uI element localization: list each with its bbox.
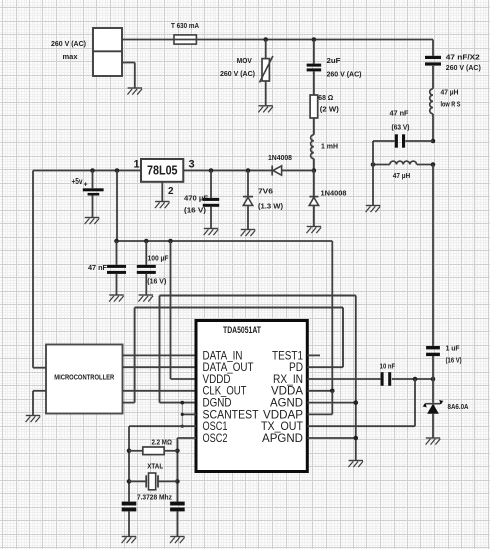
svg-text:8A6.0A: 8A6.0A <box>448 402 469 411</box>
node VDDA junction <box>330 389 335 394</box>
inductor 47 uH low RS <box>430 66 461 114</box>
node SCANTEST <box>181 413 184 416</box>
svg-text:10 nF: 10 nF <box>380 362 396 371</box>
wire OSC2 pin <box>177 438 196 502</box>
node RX net TX tap <box>413 377 418 382</box>
diode D1 1N4008 horizontal <box>268 153 314 175</box>
wire VDD branch down <box>116 171 118 242</box>
svg-text:(2 W): (2 W) <box>320 104 340 113</box>
pin label DGND <box>203 396 232 410</box>
pin label OSC2 <box>203 431 228 445</box>
wire SCANTEST tie <box>181 403 183 427</box>
svg-text:(1.3 W): (1.3 W) <box>258 202 284 211</box>
node AGND junction <box>354 400 359 405</box>
capacitor 1 uF 16V <box>426 343 462 364</box>
pin label OSC1 <box>203 419 228 433</box>
ground xtal right <box>170 537 185 544</box>
svg-text:max: max <box>63 52 79 61</box>
wire VDDAP pin <box>307 413 332 415</box>
pin label APGND <box>262 431 303 445</box>
svg-text:100 µF: 100 µF <box>148 254 169 263</box>
svg-text:47 µH: 47 µH <box>441 88 459 97</box>
diode D2 1N4008 vertical <box>309 189 346 206</box>
svg-text:T 630 mA: T 630 mA <box>171 21 199 30</box>
wire 1mH to node <box>313 159 315 171</box>
capacitor 2uF 260V <box>307 56 362 79</box>
pin label DATA_OUT <box>203 360 255 374</box>
svg-text:(16 V): (16 V) <box>184 205 207 214</box>
wire connector bottom pin <box>122 63 135 89</box>
pin label VDDD <box>203 372 231 386</box>
wire connector top pin to fuse <box>122 39 174 41</box>
svg-text:APGND: APGND <box>262 431 303 445</box>
wire VDDA pin <box>307 390 332 392</box>
ground 470uF <box>204 229 219 236</box>
svg-text:OSC2: OSC2 <box>203 431 228 445</box>
node 100uF tap <box>144 239 149 244</box>
crystal XTAL 7.3728 Mhz <box>129 462 177 502</box>
capacitor xtal left <box>122 502 137 537</box>
wire PD pin <box>307 366 343 368</box>
wire AGND pin <box>307 402 356 404</box>
svg-text:+5v: +5v <box>72 177 83 186</box>
svg-text:260 V (AC): 260 V (AC) <box>446 63 481 72</box>
wire TEST1 stub <box>307 354 320 356</box>
capacitor 470 uF 16V <box>184 171 219 229</box>
wire right rail to 1uF <box>432 165 434 347</box>
node mains junction at 2uF <box>312 37 317 42</box>
wire PD loop <box>135 308 343 403</box>
wire DGND-AGND loop <box>160 296 356 403</box>
wire 2uF to 68 ohm <box>313 71 315 95</box>
wire 78L05 pin3 rail <box>183 170 272 172</box>
capacitor C +5v electrolytic <box>83 171 104 218</box>
fuse F1 T 630 mA <box>171 21 199 44</box>
ground 47nF <box>109 295 124 302</box>
svg-text:(16 V): (16 V) <box>446 355 462 364</box>
capacitor 47 nF decoupling <box>88 241 126 295</box>
svg-text:47 nF/X2: 47 nF/X2 <box>446 53 480 62</box>
wire 1N4008 to ground <box>313 205 315 226</box>
node 470uF tap <box>209 168 214 173</box>
wire left supply vertical <box>32 171 34 368</box>
capacitor 10 nF <box>380 362 433 386</box>
wire OSC1 pin <box>129 426 196 501</box>
svg-text:47 nF: 47 nF <box>88 263 107 272</box>
wire VDDD vertical <box>171 241 197 379</box>
ground xtal left <box>122 537 137 544</box>
node OSC1 tie <box>181 425 184 428</box>
svg-text:1: 1 <box>133 158 139 170</box>
wire MOV branch <box>265 40 267 59</box>
node filter left top <box>371 162 376 167</box>
svg-text:2: 2 <box>168 186 174 197</box>
svg-text:1 mH: 1 mH <box>321 142 338 151</box>
node DGND scantest <box>180 401 184 405</box>
ground analog <box>348 461 363 468</box>
label 260 V (AC) max <box>51 39 86 61</box>
TVS diode 8A6.0A <box>422 400 469 413</box>
wire coil to node <box>432 114 434 141</box>
AC mains connector J1 260V <box>93 28 122 76</box>
node osc1 res <box>127 449 132 454</box>
node 7V6 tap <box>246 168 251 173</box>
wire VDDA-VDDAP tie <box>331 391 333 415</box>
wire TVS to ground <box>432 413 434 438</box>
wire MCU data_in <box>123 354 197 356</box>
wire MCU gnd pin <box>33 391 46 416</box>
svg-text:47 µH: 47 µH <box>393 171 411 180</box>
wire MCU clk_out <box>123 390 197 392</box>
capacitor xtal right <box>170 502 185 537</box>
capacitor 47 nF/X2 260V <box>425 40 481 73</box>
IC U1 TDA5051AT <box>196 321 307 472</box>
wire MCU pd pin <box>123 402 135 404</box>
node filter right bottom <box>431 162 436 167</box>
inductor 1 mH <box>311 135 338 159</box>
pin 2 label <box>168 186 174 197</box>
svg-text:TDA5051AT: TDA5051AT <box>223 325 261 335</box>
svg-text:470 µF: 470 µF <box>184 194 208 203</box>
microcontroller U3 <box>46 345 123 414</box>
pin label DATA_IN <box>203 348 243 362</box>
svg-text:XTAL: XTAL <box>147 462 163 471</box>
ground 78L05 <box>155 202 170 209</box>
pin 3 label <box>188 158 194 170</box>
wire filter left leg <box>372 141 374 206</box>
svg-text:2.2 MΩ: 2.2 MΩ <box>151 438 172 447</box>
node coupling junction <box>312 168 317 173</box>
pin label PD <box>289 360 303 374</box>
node osc1 xtal <box>127 479 132 484</box>
node +5v tap <box>90 168 95 173</box>
node VDDD tap <box>168 239 173 244</box>
node osc2 res <box>175 449 180 454</box>
resistor 68 Ohm 2W <box>310 93 339 118</box>
pin 1 label <box>133 158 139 170</box>
pin label VDDA <box>271 384 303 398</box>
node 47nF tap <box>114 239 119 244</box>
wire MCU data_out <box>123 366 197 368</box>
svg-text:1N4008: 1N4008 <box>268 153 292 162</box>
capacitor 47 nF (63 V) <box>373 108 433 147</box>
node APGND junction <box>354 436 359 441</box>
resistor 2.2 MOhm <box>129 438 177 455</box>
pin label CLK_OUT <box>203 384 248 398</box>
svg-text:7V6: 7V6 <box>258 187 273 196</box>
wire VDDA vertical from rail2 <box>331 241 333 391</box>
inductor 47 uH horizontal <box>373 161 433 180</box>
pin label TEST1 <box>272 348 303 362</box>
wire 2uF top <box>313 40 315 64</box>
node filter right top <box>431 139 436 144</box>
pin label AGND <box>270 396 303 410</box>
node mains junction at MOV <box>263 37 268 42</box>
svg-text:+: + <box>84 182 88 189</box>
wire node down to 1N4008 <box>313 171 315 197</box>
node VDD branch <box>115 168 120 173</box>
capacitor 100 uF 16V <box>137 241 169 295</box>
label +5v <box>72 177 88 189</box>
ground connector neutral <box>127 88 142 95</box>
svg-text:3: 3 <box>188 158 194 170</box>
svg-text:(63 V): (63 V) <box>392 123 410 132</box>
wire AGND vertical <box>355 296 357 461</box>
wire 78L05 pin2 <box>161 182 163 202</box>
svg-text:78L05: 78L05 <box>147 162 178 177</box>
svg-text:MOV: MOV <box>237 56 252 65</box>
svg-text:260 V (AC): 260 V (AC) <box>51 39 86 48</box>
svg-text:1N4008: 1N4008 <box>321 189 347 198</box>
svg-text:47 nF: 47 nF <box>390 108 409 117</box>
ground 100uF <box>138 295 153 302</box>
node osc2 xtal <box>175 479 180 484</box>
wire SCANTEST stub <box>182 413 196 415</box>
wire 68 ohm to 1mH <box>313 118 315 135</box>
pin label SCANTEST <box>203 407 260 421</box>
pin label RX_IN <box>273 372 303 386</box>
wire +5V rail left <box>33 170 141 172</box>
wire RX node to TVS <box>432 379 434 403</box>
svg-text:260 V (AC): 260 V (AC) <box>220 69 255 78</box>
ground +5v cap <box>85 218 100 225</box>
regulator U2 78L05 <box>141 159 183 182</box>
node RX net rail <box>431 377 436 382</box>
wire VDD rail2 <box>117 240 333 242</box>
varistor MOV 260 V (AC) <box>220 56 273 83</box>
svg-text:7.3728 Mhz: 7.3728 Mhz <box>137 493 172 502</box>
svg-text:260 V (AC): 260 V (AC) <box>327 70 362 79</box>
svg-text:(16 V): (16 V) <box>147 277 166 286</box>
pin label TX_OUT <box>261 419 304 433</box>
wire MOV to ground <box>265 81 267 106</box>
svg-text:low R S: low R S <box>441 99 461 108</box>
ground filter <box>366 206 381 213</box>
ground D2 <box>307 227 322 234</box>
svg-text:68 Ω: 68 Ω <box>318 93 333 102</box>
ground MCU <box>26 416 41 423</box>
wire MCU +5V pin <box>33 367 46 369</box>
ground TVS <box>426 438 441 445</box>
wire 1uF to RX node <box>432 356 434 379</box>
zener D3 7V6 1.3W <box>243 171 284 230</box>
pin label VDDAP <box>263 407 303 421</box>
wire RX_IN pin <box>307 378 380 380</box>
wire top rail fuse to right corner <box>196 39 433 41</box>
svg-text:MICROCONTROLLER: MICROCONTROLLER <box>54 374 114 381</box>
wire APGND pin <box>307 437 356 439</box>
ground 7V6 <box>241 230 256 237</box>
ground MOV <box>258 106 273 113</box>
svg-text:2uF: 2uF <box>327 56 341 65</box>
svg-text:1 uF: 1 uF <box>446 343 460 352</box>
wire TX_OUT pin <box>307 379 415 426</box>
